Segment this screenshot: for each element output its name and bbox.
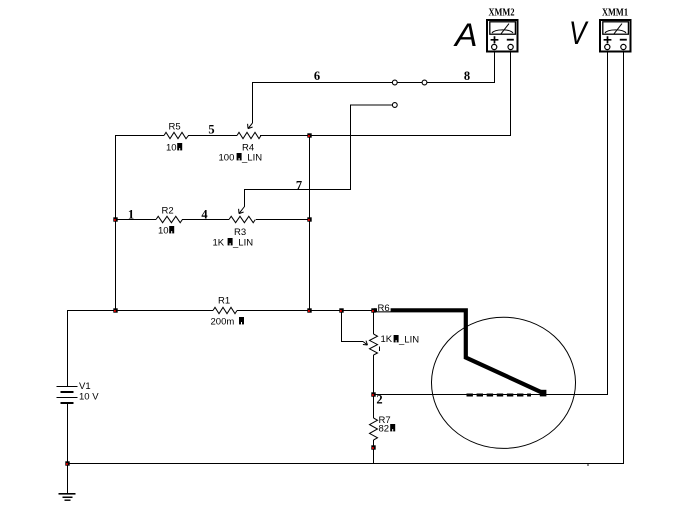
junction dot (309,310) [307, 308, 311, 312]
svg-text:XMM1: XMM1 [602, 8, 628, 19]
wire R6 top lead [373, 310, 374, 334]
node 2 junction dot (373.5,394.5) [371, 392, 375, 396]
wire left branch vertical x=114 [115, 135, 116, 311]
svg-text:A: A [453, 17, 478, 53]
battery V1 [57, 381, 100, 404]
wire XMM2 minus vertical drop [510, 49, 511, 136]
galvanometer scale circle [432, 317, 576, 448]
galvanometer dashed travel line [467, 394, 532, 397]
ground [59, 463, 76, 501]
resistor R1 [211, 296, 245, 328]
wire bottom rail [67, 463, 624, 464]
svg-text:200m: 200m [211, 317, 235, 328]
wire R7 bottom lead [373, 440, 374, 464]
potentiometer R4 [219, 123, 263, 164]
svg-text:V1: V1 [79, 381, 91, 392]
svg-text:1K: 1K [381, 334, 393, 345]
junction dot (115,310) [113, 308, 117, 312]
wire node 7 vertical riser [350, 105, 351, 191]
svg-text:10: 10 [166, 143, 177, 154]
resistor R2 [156, 206, 182, 237]
svg-text:R2: R2 [162, 206, 174, 217]
wire node 7 horizontal [244, 189, 351, 190]
wire middle vertical x=309 [309, 135, 310, 311]
junction dot (373.5,447.5) [371, 445, 375, 449]
node 1 junction dot (115,219) [113, 217, 117, 221]
switch contact circle on node 7 stub [392, 103, 397, 108]
wire R6 to node 2 lead [373, 355, 374, 418]
svg-text:4: 4 [201, 207, 208, 221]
wire R6 wiper horizontal [341, 341, 363, 342]
wire XMM2 plus vertical drop [494, 49, 495, 83]
svg-text:R1: R1 [218, 296, 230, 307]
svg-text:82: 82 [379, 424, 390, 435]
svg-text:1: 1 [128, 207, 134, 221]
wire node 6 vertical to R4 wiper [252, 82, 253, 123]
stray mark below bottom rail [587, 464, 589, 466]
switch contact circle on node 8 [422, 80, 427, 85]
multimeter XMM1 (voltmeter) [600, 8, 631, 52]
junction dot (373.5,310) [371, 308, 375, 312]
wire XMM1 minus vertical [623, 49, 624, 464]
wire node 6 horizontal (left segment) [252, 82, 392, 83]
ground junction dot (67,462.5) [65, 461, 69, 465]
svg-text:R6: R6 [378, 303, 390, 314]
junction dot (341,310) [339, 308, 343, 312]
wire node 6/8 segment between switch contacts [397, 82, 422, 83]
node A junction dot (309,135) [307, 133, 311, 137]
svg-text:_LIN: _LIN [241, 153, 262, 164]
wire R1 row right segment [237, 310, 374, 311]
potentiometer R6 [363, 334, 419, 355]
wire XMM1 plus vertical [607, 49, 608, 395]
wire node 5 row: left lead of R5 [115, 135, 164, 136]
svg-text:100: 100 [219, 153, 235, 164]
svg-text:XMM2: XMM2 [489, 8, 515, 19]
wire node 4 between R2 and R3 [182, 219, 229, 220]
potentiometer R3 [213, 190, 256, 249]
wire R6 wiper vertical [341, 310, 342, 341]
potentiometer R6 reference label [377, 303, 391, 315]
svg-text:1K: 1K [213, 238, 225, 249]
wire node 2 horizontal [373, 394, 607, 395]
svg-text:6: 6 [314, 69, 320, 83]
galvanometer thick pointer trace [374, 310, 546, 396]
svg-text:_LIN: _LIN [232, 238, 253, 249]
multimeter XMM2 (ammeter) [487, 8, 518, 52]
svg-text:V: V [569, 15, 589, 51]
wire node 1 row: left lead of R2 [115, 219, 156, 220]
svg-text:R5: R5 [169, 122, 181, 133]
svg-text:R3: R3 [234, 227, 246, 238]
svg-text:10: 10 [158, 226, 169, 237]
wire node 5 between R5 and R4 [188, 135, 237, 136]
wire node 8 horizontal to XMM2 plus [427, 82, 494, 83]
wire node 7 stub horizontal [350, 105, 392, 106]
junction dot (309,219) [307, 217, 311, 221]
wire R3 right segment [256, 219, 310, 220]
wire battery top vertical [67, 310, 68, 386]
svg-text:2: 2 [376, 393, 382, 407]
svg-text:8: 8 [464, 69, 470, 83]
wire R4 right to XMM2 minus [260, 135, 511, 136]
resistor R5 [164, 122, 189, 154]
switch contact circle on node 6 [392, 80, 397, 85]
svg-text:7: 7 [296, 179, 302, 193]
resistor R7 [370, 415, 396, 440]
svg-text:5: 5 [208, 122, 214, 136]
svg-text:_LIN: _LIN [398, 335, 419, 346]
svg-text:10 V: 10 V [79, 392, 99, 403]
wire R1 row left segment [67, 310, 213, 311]
wire battery bottom vertical [67, 403, 68, 464]
